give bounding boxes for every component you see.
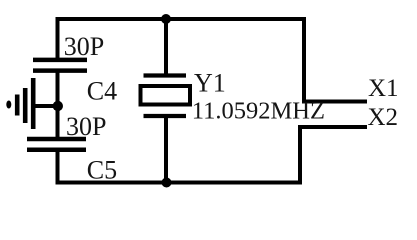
svg-text:30P: 30P: [66, 112, 106, 141]
svg-text:11.0592MHZ: 11.0592MHZ: [192, 98, 325, 125]
svg-text:30P: 30P: [64, 32, 104, 61]
svg-text:X1: X1: [368, 75, 399, 102]
svg-text:C5: C5: [87, 155, 117, 184]
svg-text:Y1: Y1: [194, 68, 226, 97]
svg-text:C4: C4: [87, 76, 117, 105]
svg-text:X2: X2: [368, 104, 399, 131]
